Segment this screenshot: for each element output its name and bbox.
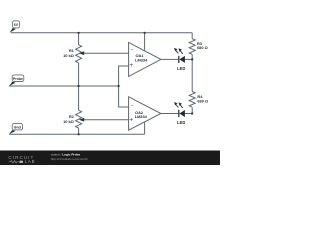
svg-text:Probe: Probe (13, 77, 23, 81)
svg-text:−: − (131, 103, 134, 109)
svg-text:LED: LED (177, 66, 185, 71)
svg-text:680 Ω: 680 Ω (197, 45, 208, 50)
svg-text:+: + (129, 62, 133, 69)
svg-text:10 kΩ: 10 kΩ (63, 53, 74, 58)
svg-text:−: − (131, 48, 134, 54)
svg-text:statiult / Logic Probe: statiult / Logic Probe (51, 153, 81, 157)
svg-text:+: + (129, 117, 133, 124)
svg-text:680 Ω: 680 Ω (197, 99, 208, 104)
svg-text:LM334: LM334 (135, 57, 148, 62)
svg-text:10 kΩ: 10 kΩ (63, 119, 74, 124)
svg-text:LM334: LM334 (135, 114, 148, 119)
svg-text:LED: LED (177, 120, 185, 125)
svg-text:http://circuitlab.com/cmn4h: http://circuitlab.com/cmn4h (51, 157, 88, 161)
svg-text:LAB: LAB (25, 159, 36, 164)
svg-text:6V: 6V (14, 23, 19, 27)
svg-text:Gnd: Gnd (14, 126, 21, 130)
